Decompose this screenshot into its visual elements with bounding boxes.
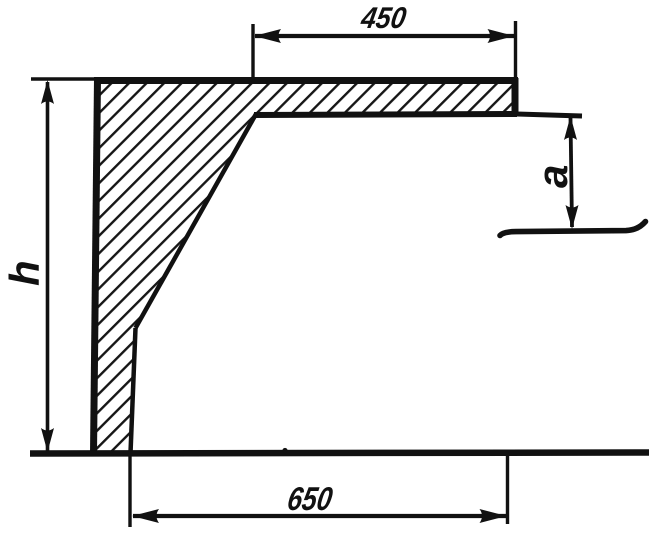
wall top edge [94,77,518,84]
650 left arrow [132,509,159,523]
650 dimension line [133,514,506,518]
svg-text:450: 450 [358,2,409,35]
inner lower edge [131,328,136,453]
speck on ground line [282,448,287,453]
slab right edge [512,78,519,116]
ground line [30,453,649,454]
650 right extension line [506,456,509,524]
a top arrow [564,116,577,140]
slab bottom edge [254,114,517,115]
450 left arrow [254,29,281,43]
inner diagonal edge [136,114,257,328]
a bottom arrow [566,205,579,229]
svg-text:a: a [529,165,576,188]
top edge extension to h line [31,77,96,81]
h top arrow [41,80,54,104]
450 right extension line [514,21,517,78]
wall cross-section hatched body [95,81,515,452]
lower right ledge line [500,222,646,236]
wall left edge [94,78,98,454]
450 right arrow [488,29,515,43]
450 left extension line [251,24,254,80]
svg-text:650: 650 [285,481,336,518]
650 left extension line [128,455,131,527]
650 right arrow [480,509,507,523]
a dimension line [571,118,573,227]
upper right reference line [517,114,582,116]
svg-text:h: h [1,260,48,286]
450 dimension line [255,34,514,38]
h bottom arrow [41,428,54,452]
h dimension line [46,82,50,451]
